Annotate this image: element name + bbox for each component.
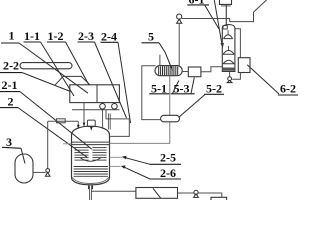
diagonal tick in pump box bbox=[153, 188, 161, 198]
svg-text:6-2: 6-2 bbox=[280, 82, 296, 96]
leader from cut-off top label into column with arrowhead bbox=[214, 0, 222, 45]
riser pipe from valve V3 bbox=[47, 121, 49, 168]
label 5 bbox=[142, 30, 160, 44]
leader from label 2-6 with arrow bbox=[124, 167, 151, 179]
reactor 2 shell bbox=[72, 126, 110, 185]
reactor right nozzle stub lower bbox=[110, 165, 121, 167]
leader from label 2-3 bbox=[95, 42, 127, 118]
leader from label 1-1 bbox=[41, 42, 75, 96]
bottom tee pipe to pump box bbox=[91, 190, 135, 192]
leader from label 6-2 to box bbox=[247, 65, 279, 94]
svg-text:1-2: 1-2 bbox=[48, 29, 64, 43]
leader from label 5-2 to small pill tank bbox=[179, 95, 206, 118]
reactor left nozzle stub bbox=[63, 143, 72, 145]
reactor bottom outlet pipe bbox=[89, 189, 91, 200]
leader from label 5-3 bbox=[191, 78, 194, 94]
pipe valve V1 down to condenser 5 bbox=[178, 23, 180, 65]
label 5-1 bbox=[149, 82, 169, 96]
column 6 bbox=[222, 25, 235, 72]
label 2-1 bbox=[0, 78, 20, 92]
reactor bottom outlet flange ticks bbox=[88, 185, 90, 189]
leader from label 5 to condenser bbox=[159, 43, 173, 71]
manhole box on dome bbox=[87, 120, 95, 127]
column bell tray 1 bbox=[223, 35, 232, 39]
feed arrow into dome bbox=[77, 121, 79, 125]
reactor inner dish tray bbox=[81, 158, 101, 161]
label 6-2 bbox=[278, 82, 298, 96]
leader from label 2 into reactor bbox=[18, 108, 87, 158]
rail line bbox=[72, 109, 120, 111]
hopper trapezoid on drive box bbox=[55, 76, 90, 84]
reactor inner bottom dish line bbox=[72, 177, 108, 183]
pipe column bottom to valve V4 bbox=[229, 71, 231, 76]
vapor pipe column to box 6-2 bbox=[235, 29, 241, 58]
agitator shaft bbox=[102, 110, 104, 129]
leader from label 2-1 into reactor bbox=[20, 92, 92, 150]
fitting on feed pipe bbox=[57, 119, 66, 123]
leader from label 2-5 with arrow bbox=[125, 158, 151, 165]
label 2-2 bbox=[0, 59, 22, 73]
label 5-3 bbox=[171, 82, 195, 96]
label 1-2 bbox=[47, 29, 66, 43]
pipe valve V2 to bottom-right box bbox=[198, 193, 222, 197]
label 2-5 bbox=[150, 151, 182, 165]
svg-text:2-2: 2-2 bbox=[3, 59, 19, 73]
box at top right (cut off label) bbox=[230, 0, 267, 22]
svg-text:5: 5 bbox=[148, 30, 154, 44]
bottom-right box (cut off) bbox=[211, 197, 227, 200]
receiver box 5-3 bbox=[188, 67, 201, 77]
leader from label 5-1 bbox=[173, 81, 179, 94]
condensate pipe from condenser 5 to pill 5-2 bbox=[142, 66, 161, 120]
label 2-3 bbox=[78, 29, 95, 43]
feed line from drive box with arrow bbox=[83, 103, 85, 123]
condenser pill 2-2 bbox=[20, 63, 72, 69]
leader from label 2-2 bbox=[22, 73, 70, 92]
feed pipe across to reactor dome bbox=[48, 120, 79, 122]
label 2-4 bbox=[101, 30, 119, 44]
leader from label 2-4 bbox=[118, 42, 131, 123]
valve V1 (top) bbox=[177, 14, 182, 23]
svg-text:2: 2 bbox=[8, 95, 14, 109]
valve V3 bbox=[45, 169, 50, 177]
label 2 bbox=[0, 95, 18, 109]
label 5-2 bbox=[204, 82, 224, 96]
svg-text:1-1: 1-1 bbox=[24, 29, 40, 43]
label 3 bbox=[2, 135, 21, 149]
wheel left bbox=[100, 104, 106, 110]
drive box bbox=[70, 85, 120, 103]
condenser 5 (hatched pill) bbox=[155, 66, 182, 76]
label 6-1 (cut off at top) bbox=[187, 0, 209, 6]
svg-text:2-6: 2-6 bbox=[160, 166, 176, 180]
reactor upper hatching bbox=[74, 148, 106, 161]
pipe pump box to valve V2 bbox=[178, 192, 194, 194]
pill tank 5-2 bbox=[161, 115, 180, 122]
pipe valve V1 to column top bbox=[182, 19, 230, 22]
svg-text:2-5: 2-5 bbox=[160, 151, 176, 165]
label 1-1 bbox=[24, 29, 41, 43]
svg-text:5-2: 5-2 bbox=[206, 82, 222, 96]
top box above column (cut off) bbox=[220, 0, 232, 4]
svg-text:2-3: 2-3 bbox=[78, 29, 94, 43]
leader from label 1-2 bbox=[66, 42, 90, 85]
pipe box 5-3 to column bbox=[201, 67, 222, 72]
column bell tray 3 bbox=[223, 60, 235, 64]
column bell tray 2 bbox=[223, 50, 235, 54]
label 1 bbox=[1, 29, 19, 44]
reactor lower hatching bbox=[74, 167, 108, 177]
nozzle stub on condenser 5 bbox=[159, 55, 161, 66]
svg-text:2-1: 2-1 bbox=[2, 78, 18, 92]
drain pipe from pill 5-2 to reactor bbox=[110, 122, 170, 144]
vapor pipe from reactor right side bbox=[106, 110, 129, 137]
box 6-2 bbox=[238, 58, 250, 73]
label 2-6 bbox=[150, 166, 182, 180]
wheel right bbox=[112, 104, 118, 110]
leader from label 6-1 with arrowhead bbox=[205, 6, 219, 30]
drive box divider bbox=[96, 85, 98, 103]
reactor right nozzle stub upper bbox=[110, 156, 123, 158]
svg-text:3: 3 bbox=[6, 135, 12, 149]
leader from label 1 to drive box bbox=[19, 43, 88, 93]
svg-text:2-4: 2-4 bbox=[101, 30, 117, 44]
svg-text:1: 1 bbox=[9, 29, 15, 43]
pump box 8 (bottom) bbox=[136, 188, 178, 199]
pipe from top box down to column bbox=[225, 4, 227, 25]
riser from condenser 5 to pill 5-2 bbox=[169, 76, 171, 115]
condenser 5 tube hatching bbox=[159, 66, 178, 75]
double stub into dome bbox=[107, 114, 109, 130]
column dark packing band bbox=[223, 68, 234, 72]
pipe from box 6-2 down to valve V4 bbox=[232, 73, 240, 80]
reactor liquid surface lines bbox=[72, 141, 110, 143]
leader from label 3 into tank bbox=[21, 148, 25, 163]
valve V4 bbox=[227, 77, 232, 83]
pipe condenser 5 to box 5-3 bbox=[182, 71, 188, 73]
tank 3 bbox=[15, 154, 33, 183]
valve V2 bbox=[194, 190, 199, 197]
nozzle on column top bbox=[223, 26, 227, 29]
tank 3 outlet pipe bbox=[33, 171, 46, 173]
